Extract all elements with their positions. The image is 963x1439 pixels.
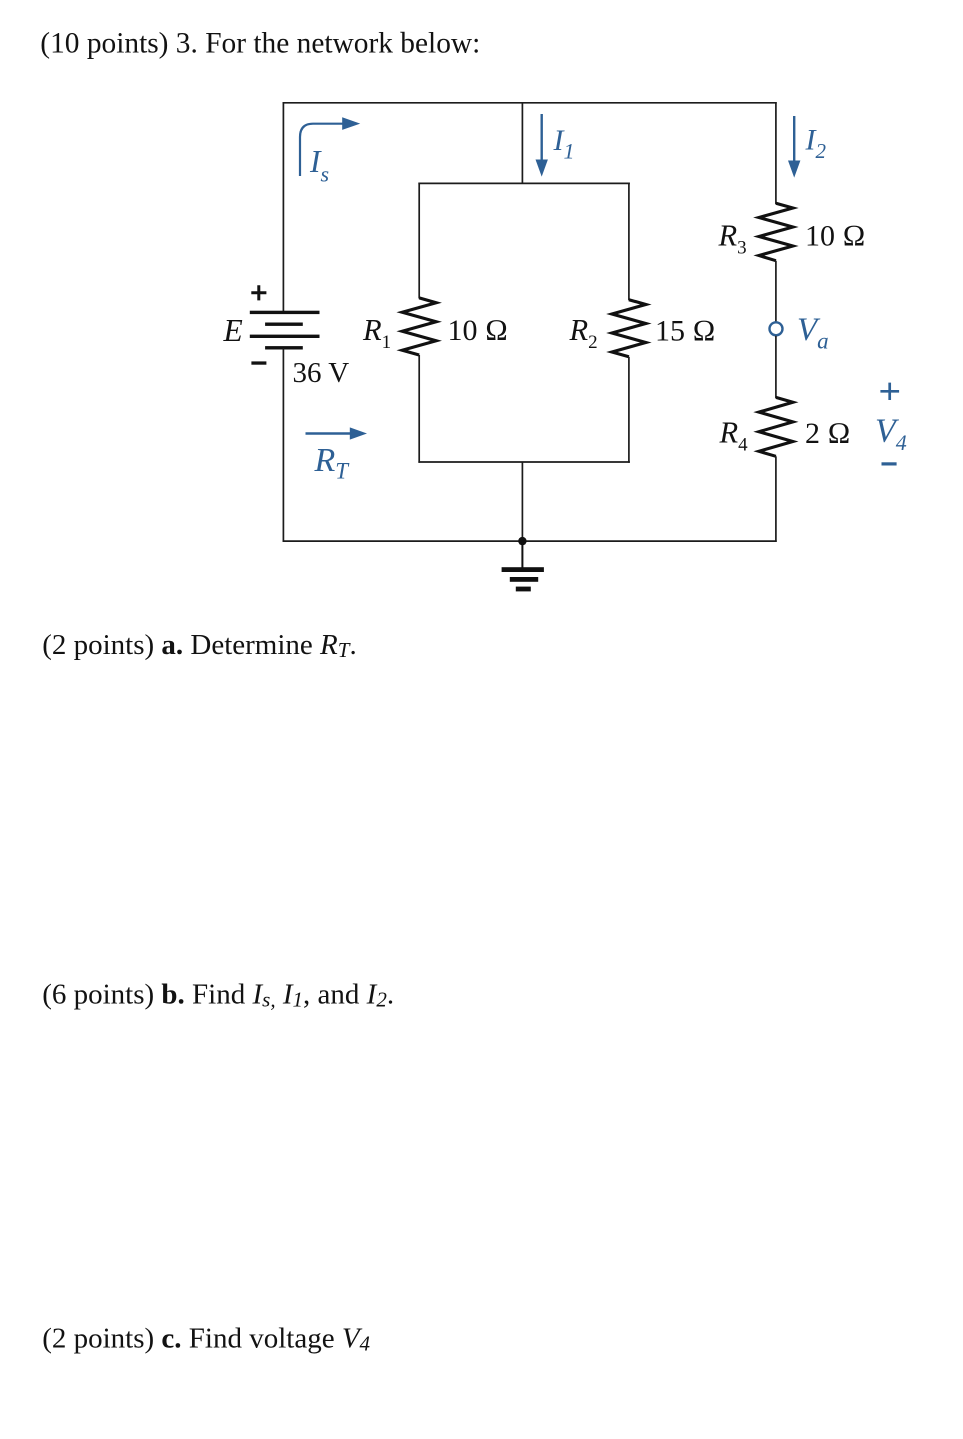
wire outer left upper (E top lead) — [282, 102, 284, 312]
wire inner box bottom to ground bus — [521, 462, 523, 541]
current arrow Is (curved) — [300, 124, 345, 176]
current arrow I2 — [793, 116, 795, 164]
svg-text:R2: R2 — [569, 313, 598, 353]
resistor R4 zigzag — [759, 397, 793, 456]
svg-text:(10 points) 3. For the network: (10 points) 3. For the network below: — [40, 28, 480, 60]
svg-text:R4: R4 — [719, 416, 749, 456]
current arrow Is head — [342, 117, 360, 130]
wire inner box left upper (to R1) — [418, 183, 420, 299]
svg-text:(2 points) a. Determine RT.: (2 points) a. Determine RT. — [42, 629, 357, 662]
wire R4 to bottom — [775, 456, 777, 542]
arrow RT — [306, 432, 354, 434]
current arrow I1 head — [536, 160, 548, 177]
svg-text:RT: RT — [314, 442, 351, 484]
battery E plates — [250, 311, 320, 350]
svg-text:I2: I2 — [805, 124, 827, 164]
junction node dot — [518, 537, 526, 545]
svg-text:(2 points) c. Find voltage V4: (2 points) c. Find voltage V4 — [42, 1322, 370, 1355]
arrow RT head — [350, 427, 367, 439]
svg-text:Va: Va — [797, 312, 829, 354]
wire right upper (top to R3) — [775, 102, 777, 204]
battery minus sign — [251, 361, 266, 364]
wire inner box bottom — [418, 461, 630, 463]
svg-text:E: E — [223, 313, 243, 348]
svg-text:36 V: 36 V — [293, 357, 350, 389]
wire inner box left lower — [418, 355, 420, 463]
wire outer left lower (E bottom lead) — [282, 348, 284, 542]
svg-text:I1: I1 — [553, 124, 575, 164]
svg-text:V4: V4 — [875, 413, 907, 456]
ground symbol — [502, 541, 544, 591]
label V4 minus — [882, 462, 897, 465]
svg-text:10 Ω: 10 Ω — [448, 314, 509, 347]
current arrow I2 head — [788, 161, 800, 178]
node Va open circle — [770, 322, 783, 335]
wire outer bottom — [283, 540, 777, 542]
resistor R3 zigzag — [759, 203, 793, 260]
svg-text:2 Ω: 2 Ω — [805, 417, 851, 450]
wire node Va to R4 — [775, 336, 777, 398]
svg-text:R1: R1 — [362, 313, 391, 353]
wire outer top — [283, 102, 777, 104]
resistor R2 zigzag — [612, 300, 646, 357]
wire inner box right upper (to R2) — [628, 183, 630, 301]
wire R3 to node Va — [775, 261, 777, 323]
battery plus sign — [251, 285, 266, 300]
resistor R1 zigzag — [402, 298, 436, 355]
label V4 plus — [880, 383, 899, 400]
current arrow I1 — [541, 114, 543, 163]
wire top to parallel box (I1 drop) — [521, 103, 523, 184]
wire inner box right lower — [628, 357, 630, 463]
wire inner box top — [418, 182, 630, 184]
svg-text:(6 points) b. Find Is, I1, and: (6 points) b. Find Is, I1, and I2. — [42, 979, 394, 1012]
svg-text:R3: R3 — [718, 218, 747, 258]
svg-text:10 Ω: 10 Ω — [805, 219, 866, 252]
svg-text:Is: Is — [309, 144, 329, 187]
svg-text:15 Ω: 15 Ω — [655, 315, 716, 348]
